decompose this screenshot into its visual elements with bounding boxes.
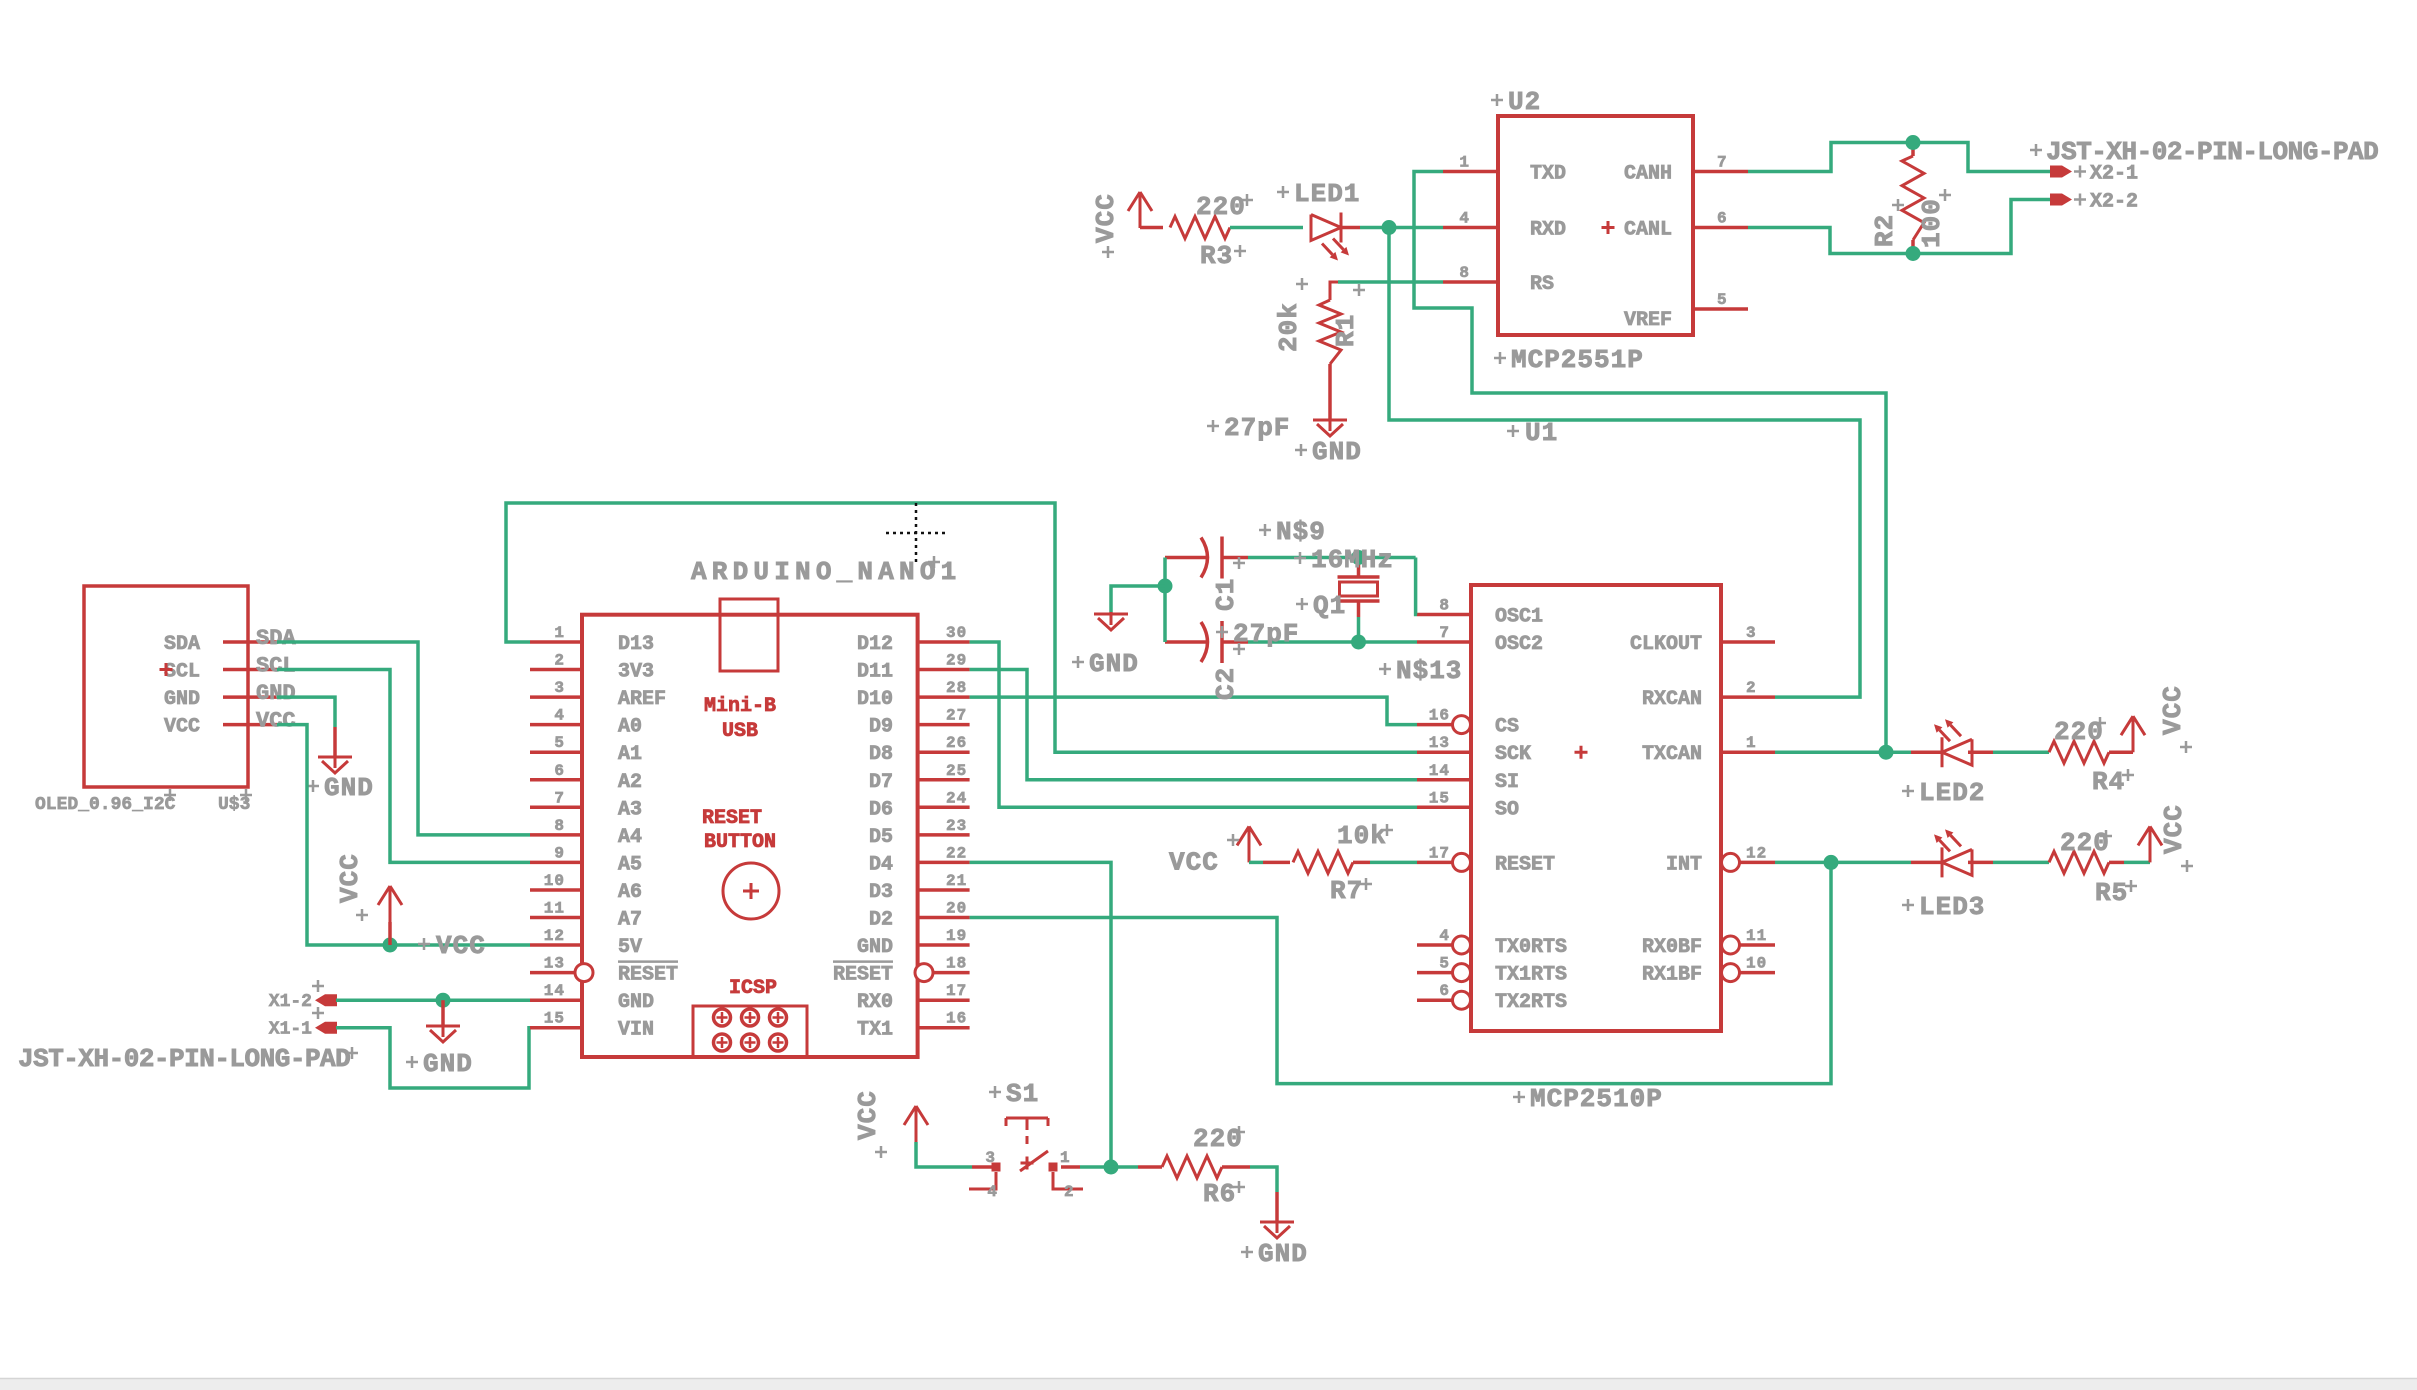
svg-text:R7: R7: [1330, 876, 1363, 906]
svg-text:1: 1: [1060, 1149, 1071, 1167]
capacitor C1 27pF: [1165, 556, 1207, 560]
wire TXD net to TXCAN: [1414, 172, 1886, 753]
LED LED1: [1311, 213, 1341, 243]
wire X1-2 to GND pin14: [336, 998, 530, 1002]
Arduino right pin stubs and numbers: [918, 640, 970, 644]
wire X1-1 to VIN: [336, 1028, 530, 1088]
svg-text:D5: D5: [869, 826, 893, 849]
svg-text:21: 21: [946, 872, 967, 890]
svg-text:RX1BF: RX1BF: [1642, 964, 1702, 987]
svg-text:25: 25: [946, 762, 967, 780]
svg-text:SO: SO: [1495, 798, 1519, 821]
svg-text:U2: U2: [1508, 87, 1541, 117]
svg-text:OLED_0.96_I2C: OLED_0.96_I2C: [35, 795, 176, 815]
svg-text:R1: R1: [1331, 314, 1361, 347]
svg-text:OSC2: OSC2: [1495, 633, 1543, 656]
svg-text:RESET: RESET: [702, 807, 762, 830]
svg-text:SCL: SCL: [164, 661, 200, 684]
wire VCC to S1: [916, 1142, 972, 1167]
wire D12 to SO: [970, 642, 1417, 807]
svg-text:VCC: VCC: [2159, 804, 2189, 854]
svg-text:VCC: VCC: [1169, 847, 1219, 877]
junction INT LED3: [1824, 855, 1839, 870]
svg-text:28: 28: [946, 679, 967, 697]
connector pad X1-1: [315, 1022, 337, 1034]
svg-text:16: 16: [1429, 707, 1450, 725]
svg-text:GND: GND: [1258, 1239, 1308, 1269]
wire cap left common: [1163, 558, 1167, 643]
LED LED3: [1911, 861, 1942, 865]
svg-text:RESET: RESET: [618, 964, 678, 987]
svg-text:OSC1: OSC1: [1495, 606, 1543, 629]
svg-text:30: 30: [946, 624, 967, 642]
svg-text:3V3: 3V3: [618, 661, 654, 684]
svg-text:A6: A6: [618, 881, 642, 904]
junction TXCAN LED2: [1879, 745, 1894, 760]
capacitor C2 27pF: [1165, 640, 1207, 644]
svg-text:LED2: LED2: [1919, 778, 1985, 808]
crystal Q1 16MHz: [1357, 558, 1361, 578]
svg-text:INT: INT: [1666, 853, 1702, 876]
reset pin bubbles: [575, 964, 593, 982]
svg-text:20: 20: [946, 900, 967, 918]
svg-text:29: 29: [946, 652, 967, 670]
svg-text:3: 3: [985, 1149, 996, 1167]
svg-text:SI: SI: [1495, 771, 1519, 794]
resistor R1 20k vertical: [1330, 282, 1338, 300]
junction RXD LED1: [1382, 220, 1397, 235]
ground symbol below R1: [1313, 418, 1347, 436]
svg-text:TXD: TXD: [1530, 163, 1566, 186]
svg-text:17: 17: [946, 982, 967, 1000]
svg-text:X1-1: X1-1: [269, 1020, 312, 1040]
svg-text:8: 8: [1439, 597, 1450, 615]
connector pad X1-2: [315, 994, 337, 1006]
reset button circle: [723, 863, 779, 919]
svg-text:10k: 10k: [1337, 821, 1387, 851]
wire R3 to LED1: [1230, 226, 1303, 230]
svg-text:CANH: CANH: [1624, 163, 1672, 186]
svg-text:TX1: TX1: [857, 1019, 893, 1042]
wire RXD net down to RXCAN: [1389, 228, 1860, 698]
svg-text:Q1: Q1: [1313, 591, 1346, 621]
svg-text:5V: 5V: [618, 936, 642, 959]
svg-text:6: 6: [554, 762, 565, 780]
wire D2 to INT: [970, 862, 1831, 1083]
svg-text:RS: RS: [1530, 273, 1554, 296]
U1 origin cross: [1575, 746, 1588, 759]
svg-text:C1: C1: [1211, 578, 1241, 611]
svg-text:6: 6: [1717, 210, 1728, 228]
svg-text:VCC: VCC: [436, 931, 486, 961]
svg-text:27pF: 27pF: [1233, 619, 1299, 649]
svg-text:VCC: VCC: [164, 716, 200, 739]
wire R6 to ground: [1250, 1167, 1277, 1192]
OLED pin stubs: [223, 640, 277, 644]
svg-text:A5: A5: [618, 853, 642, 876]
svg-text:RX0BF: RX0BF: [1642, 936, 1702, 959]
svg-text:220: 220: [2060, 828, 2110, 858]
U2 origin cross: [1602, 221, 1615, 234]
wire to crystal gnd: [1111, 586, 1165, 614]
wire VCC to R7: [1249, 861, 1263, 865]
svg-text:100: 100: [1917, 198, 1947, 248]
resistor R3 220: [1170, 217, 1230, 239]
svg-text:ICSP: ICSP: [729, 977, 777, 1000]
svg-text:AREF: AREF: [618, 688, 666, 711]
ground symbol below X1: [441, 1000, 445, 1026]
ground symbol below OLED GND: [333, 727, 337, 757]
resistor R7 10k: [1293, 851, 1353, 873]
resistor R2 100 vertical: [1911, 143, 1915, 157]
svg-text:C2: C2: [1211, 667, 1241, 700]
svg-text:CANL: CANL: [1624, 219, 1672, 242]
svg-text:VCC: VCC: [2158, 685, 2188, 735]
svg-text:MCP2510P: MCP2510P: [1530, 1084, 1663, 1114]
svg-text:14: 14: [1429, 762, 1450, 780]
junction VCC node: [383, 938, 398, 953]
U1 right pin stubs: [1721, 640, 1775, 644]
svg-text:D6: D6: [869, 798, 893, 821]
wire OLED GND: [277, 697, 335, 727]
wire LED2 to R4: [1993, 750, 2049, 754]
svg-text:LED3: LED3: [1919, 892, 1985, 922]
svg-text:A1: A1: [618, 743, 642, 766]
svg-text:SCK: SCK: [1495, 743, 1531, 766]
svg-text:2: 2: [554, 652, 565, 670]
svg-text:D3: D3: [869, 881, 893, 904]
svg-text:SDA: SDA: [164, 633, 200, 656]
svg-text:2: 2: [1746, 679, 1757, 697]
svg-text:R5: R5: [2095, 878, 2128, 908]
OLED display U$3 box: [84, 586, 248, 787]
VCC supply symbol top left: [1128, 192, 1152, 228]
LED LED2: [1911, 750, 1942, 754]
svg-text:6: 6: [1439, 982, 1450, 1000]
svg-text:LED1: LED1: [1294, 179, 1360, 209]
svg-text:26: 26: [946, 734, 967, 752]
svg-text:220: 220: [1193, 1124, 1243, 1154]
svg-text:20k: 20k: [1274, 302, 1304, 352]
svg-text:VCC: VCC: [256, 709, 296, 734]
svg-text:A7: A7: [618, 909, 642, 932]
svg-text:TX2RTS: TX2RTS: [1495, 991, 1567, 1014]
ground symbol below R6: [1275, 1192, 1279, 1222]
svg-text:RXD: RXD: [1530, 219, 1566, 242]
wire junction to R6: [1111, 1165, 1138, 1169]
svg-text:GND: GND: [164, 688, 200, 711]
svg-text:5: 5: [554, 734, 565, 752]
svg-text:N$9: N$9: [1276, 517, 1326, 547]
svg-text:27: 27: [946, 707, 967, 725]
svg-text:RX0: RX0: [857, 991, 893, 1014]
resistor R5 220: [2049, 851, 2109, 873]
svg-text:10: 10: [1746, 955, 1767, 973]
svg-text:BUTTON: BUTTON: [704, 831, 776, 854]
svg-text:D11: D11: [857, 661, 893, 684]
svg-text:R4: R4: [2092, 767, 2125, 797]
ground symbol crystal: [1094, 612, 1128, 630]
svg-text:17: 17: [1429, 844, 1450, 862]
svg-text:D4: D4: [869, 853, 893, 876]
svg-text:R3: R3: [1200, 241, 1233, 271]
junction X1 GND: [436, 993, 451, 1008]
mouse crosshair cursor: [886, 503, 946, 566]
svg-text:A2: A2: [618, 771, 642, 794]
svg-text:13: 13: [544, 955, 565, 973]
svg-text:5: 5: [1439, 955, 1450, 973]
svg-text:1: 1: [1459, 154, 1470, 172]
ICSP pads: [714, 1009, 731, 1026]
svg-text:7: 7: [554, 789, 565, 807]
svg-text:VIN: VIN: [618, 1019, 654, 1042]
svg-text:RESET: RESET: [833, 964, 893, 987]
svg-text:GND: GND: [1089, 649, 1139, 679]
wire LED1 to junction and RXD: [1360, 226, 1443, 230]
svg-text:5: 5: [1717, 291, 1728, 309]
svg-text:D12: D12: [857, 633, 893, 656]
svg-text:VREF: VREF: [1624, 309, 1672, 332]
svg-text:R6: R6: [1203, 1179, 1236, 1209]
VCC supply symbol at R5: [2138, 826, 2162, 862]
svg-text:2: 2: [1064, 1183, 1075, 1201]
VCC supply symbol at R4: [2121, 716, 2145, 752]
wire VCC to R3: [1140, 226, 1163, 230]
svg-text:1: 1: [554, 624, 565, 642]
svg-text:19: 19: [946, 927, 967, 945]
svg-text:16: 16: [946, 1010, 967, 1028]
svg-text:D7: D7: [869, 771, 893, 794]
svg-text:D8: D8: [869, 743, 893, 766]
svg-text:11: 11: [544, 900, 565, 918]
ICSP header box: [693, 1006, 807, 1057]
svg-text:3: 3: [554, 679, 565, 697]
svg-text:RESET: RESET: [1495, 853, 1555, 876]
U2 pin stubs: [1443, 170, 1498, 174]
svg-text:4: 4: [987, 1183, 998, 1201]
svg-text:220: 220: [2054, 717, 2104, 747]
svg-text:D13: D13: [618, 633, 654, 656]
U1 left pin stubs: [1417, 613, 1471, 617]
wire SCL to A5: [277, 670, 530, 863]
svg-text:4: 4: [554, 707, 565, 725]
svg-text:4: 4: [1439, 927, 1450, 945]
wire INT junction to LED3: [1831, 861, 1911, 865]
svg-text:10: 10: [544, 872, 565, 890]
svg-text:ARDUINO_NANO1: ARDUINO_NANO1: [691, 557, 961, 587]
VCC supply symbol at R7: [1237, 826, 1261, 862]
resistor R6 220: [1138, 1165, 1162, 1169]
svg-text:R2: R2: [1870, 214, 1900, 247]
svg-text:TX0RTS: TX0RTS: [1495, 936, 1567, 959]
svg-text:Mini-B: Mini-B: [704, 695, 776, 718]
svg-text:USB: USB: [722, 720, 758, 743]
svg-text:GND: GND: [423, 1049, 473, 1079]
junction R2 bottom: [1906, 246, 1921, 261]
wire crystal top net N$9: [1248, 556, 1416, 560]
svg-text:X2-1: X2-1: [2090, 163, 2138, 186]
USB connector box: [720, 599, 778, 671]
svg-text:CLKOUT: CLKOUT: [1630, 633, 1702, 656]
junction S1 R6: [1104, 1160, 1119, 1175]
wire R7 to RESET pin: [1370, 861, 1417, 865]
IC U2 MCP2551P box: [1498, 116, 1693, 335]
svg-text:22: 22: [946, 844, 967, 862]
svg-text:A4: A4: [618, 826, 642, 849]
VCC supply symbol at S1: [904, 1106, 928, 1142]
junction caps gnd: [1158, 579, 1173, 594]
svg-text:12: 12: [1746, 844, 1767, 862]
IC U1 MCP2510P box: [1471, 585, 1721, 1031]
svg-text:GND: GND: [618, 991, 654, 1014]
svg-text:GND: GND: [256, 681, 296, 706]
svg-text:U1: U1: [1525, 418, 1558, 448]
wire RS to R1: [1338, 280, 1443, 284]
svg-text:18: 18: [946, 955, 967, 973]
svg-text:A3: A3: [618, 798, 642, 821]
svg-text:4: 4: [1459, 210, 1470, 228]
switch S1: [972, 1165, 992, 1169]
svg-text:11: 11: [1746, 927, 1767, 945]
svg-text:SDA: SDA: [256, 626, 296, 651]
svg-text:VCC: VCC: [853, 1090, 883, 1140]
svg-text:D10: D10: [857, 688, 893, 711]
svg-text:X2-2: X2-2: [2090, 191, 2138, 214]
svg-text:14: 14: [544, 982, 565, 1000]
svg-text:8: 8: [554, 817, 565, 835]
svg-text:RXCAN: RXCAN: [1642, 688, 1702, 711]
svg-text:SCL: SCL: [256, 654, 296, 679]
junction crystal top: [1351, 550, 1366, 565]
svg-text:220: 220: [1196, 192, 1246, 222]
bottom status bar edge: [0, 1379, 2417, 1390]
wire D11 to SI: [970, 670, 1417, 780]
svg-text:S1: S1: [1006, 1079, 1039, 1109]
svg-text:8: 8: [1459, 264, 1470, 282]
svg-text:7: 7: [1717, 154, 1728, 172]
svg-text:27pF: 27pF: [1224, 413, 1290, 443]
svg-text:7: 7: [1439, 624, 1450, 642]
svg-text:D2: D2: [869, 909, 893, 932]
wire D10 to CS: [970, 697, 1417, 725]
wire D13 to SCK: [506, 503, 1417, 752]
wire S1 to junction: [1080, 1165, 1111, 1169]
svg-text:12: 12: [544, 927, 565, 945]
wire CANH to X2-1: [1748, 143, 2050, 172]
svg-text:CS: CS: [1495, 716, 1519, 739]
connector pad X2-1: [2050, 166, 2072, 178]
wire LED3 to R5: [1993, 861, 2049, 865]
svg-text:GND: GND: [857, 936, 893, 959]
wire SDA to A4: [277, 642, 530, 835]
svg-text:GND: GND: [324, 773, 374, 803]
svg-text:24: 24: [946, 789, 967, 807]
resistor R4 220: [2049, 741, 2109, 763]
svg-text:3: 3: [1746, 624, 1757, 642]
svg-text:23: 23: [946, 817, 967, 835]
wire D4 to switch S1: [970, 862, 1111, 1167]
svg-text:JST-XH-02-PIN-LONG-PAD: JST-XH-02-PIN-LONG-PAD: [18, 1044, 350, 1074]
svg-text:TX1RTS: TX1RTS: [1495, 964, 1567, 987]
Arduino Nano ARDUINO_NANO1 box: [582, 615, 918, 1057]
svg-text:16MHz: 16MHz: [1311, 545, 1394, 575]
connector pad X2-2: [2050, 194, 2072, 206]
wire TXCAN to LED2: [1775, 750, 1911, 754]
svg-text:A0: A0: [618, 716, 642, 739]
wire CANL to X2-2: [1748, 200, 2050, 254]
wire OLED VCC to 5V net: [277, 725, 530, 945]
svg-text:15: 15: [544, 1010, 565, 1028]
VCC supply symbol at Arduino: [388, 922, 392, 945]
svg-text:13: 13: [1429, 734, 1450, 752]
junction R2 top: [1906, 135, 1921, 150]
Arduino left pin stubs and numbers: [530, 640, 582, 644]
svg-text:1: 1: [1746, 734, 1757, 752]
svg-text:TXCAN: TXCAN: [1642, 743, 1702, 766]
svg-text:X1-2: X1-2: [269, 992, 312, 1012]
wire R5 to VCC: [2124, 861, 2150, 865]
junction crystal bottom: [1351, 635, 1366, 650]
svg-text:9: 9: [554, 844, 565, 862]
svg-text:VCC: VCC: [1091, 193, 1121, 243]
svg-text:VCC: VCC: [335, 853, 365, 903]
svg-text:MCP2551P: MCP2551P: [1511, 345, 1644, 375]
svg-text:N$13: N$13: [1396, 656, 1462, 686]
svg-text:15: 15: [1429, 789, 1450, 807]
wire crystal bottom net to OSC2: [1248, 640, 1417, 644]
svg-text:D9: D9: [869, 716, 893, 739]
svg-text:GND: GND: [1312, 437, 1362, 467]
OLED origin cross: [160, 663, 173, 676]
